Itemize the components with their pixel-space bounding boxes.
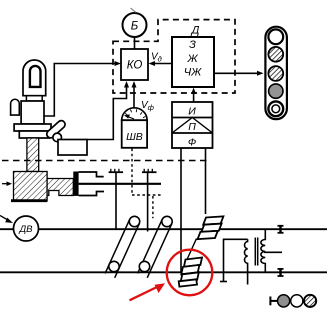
IPF stack box xyxy=(172,102,213,148)
link coil A to coil B xyxy=(187,239,197,260)
locomotive light head xyxy=(265,27,287,120)
lens hatched 1 xyxy=(268,47,283,62)
piston black bar xyxy=(73,172,78,196)
arrow I to D xyxy=(193,91,195,102)
output arrow to light xyxy=(214,72,260,74)
KO box xyxy=(121,49,148,80)
DV motor circle xyxy=(14,216,39,241)
tick above B xyxy=(131,8,137,12)
legend hatched lamp xyxy=(304,295,316,307)
RB box xyxy=(58,140,87,156)
transformer core xyxy=(254,238,256,266)
lens gray xyxy=(269,84,283,98)
svg-text:З: З xyxy=(189,39,196,51)
circle B (battery) xyxy=(123,13,147,37)
belt drive 1 xyxy=(105,216,140,277)
svg-text:Ж: Ж xyxy=(186,53,198,65)
svg-text:Ф: Ф xyxy=(188,137,196,149)
hatched stem xyxy=(27,138,39,172)
brush contact 1 xyxy=(109,169,124,229)
hatched main body xyxy=(14,172,48,202)
transformer left winding xyxy=(245,239,248,284)
Vd arrow D to KO xyxy=(151,63,172,65)
ShV box xyxy=(122,120,147,148)
side tab xyxy=(11,99,20,115)
brush contact 2 xyxy=(142,169,157,232)
D box (decoder) xyxy=(172,37,214,87)
legend gray lamp xyxy=(278,295,290,307)
svg-text:И: И xyxy=(188,106,196,118)
valve body block xyxy=(21,101,44,124)
filter leg left xyxy=(180,148,182,272)
air arrow into body xyxy=(2,183,9,185)
handle cylinder RB xyxy=(45,119,66,142)
dotted link ShV down xyxy=(131,149,133,194)
insulated joint top xyxy=(278,226,284,233)
wire device to KO xyxy=(44,64,119,117)
rail top xyxy=(0,228,327,230)
svg-text:ШВ: ШВ xyxy=(126,131,143,143)
svg-text:П: П xyxy=(188,121,196,133)
rail bottom xyxy=(0,271,327,273)
dotted link horizontal xyxy=(132,194,163,196)
flange 1 xyxy=(14,124,51,131)
wire RB to KO xyxy=(87,84,127,140)
bold base line xyxy=(11,199,47,202)
svg-text:КО: КО xyxy=(127,60,143,72)
receiver coil A xyxy=(198,216,224,239)
red highlight circle xyxy=(167,250,213,296)
dashed enclosure KO+D xyxy=(113,20,235,93)
arrow into DV xyxy=(0,216,9,221)
gauge needle xyxy=(126,116,134,119)
transformer right winding between rails xyxy=(261,229,265,272)
center tap xyxy=(264,251,282,253)
lens ring xyxy=(268,101,283,116)
svg-text:ДВ: ДВ xyxy=(18,224,33,235)
P diagonals xyxy=(172,118,192,134)
piston rod xyxy=(79,183,161,185)
whistle dome outer (EPK top) xyxy=(23,60,46,96)
gauge ticks xyxy=(125,109,145,118)
transformer left lead xyxy=(224,239,248,281)
lens white xyxy=(268,29,283,44)
whistle dome inner xyxy=(30,66,41,87)
cylinder outline xyxy=(79,172,104,196)
filter leg right xyxy=(205,148,207,214)
svg-text:Б: Б xyxy=(131,20,139,32)
stem B to KO xyxy=(134,37,136,49)
belt drive 2 xyxy=(138,216,173,277)
red arrow xyxy=(130,287,159,301)
insulated joint bottom xyxy=(278,269,284,276)
receiver coil B xyxy=(179,258,202,287)
hatched protrusion xyxy=(47,179,73,196)
svg-text:Д: Д xyxy=(190,25,200,37)
wire ShV to KO xyxy=(133,84,135,109)
flange 2 xyxy=(19,131,49,138)
legend white lamp xyxy=(291,295,303,307)
svg-text:ЧЖ: ЧЖ xyxy=(184,67,202,79)
valve neck band xyxy=(26,96,42,101)
dotted link down to belt xyxy=(152,196,154,218)
lens hatched 2 xyxy=(268,66,283,81)
long dashed line xyxy=(2,160,210,162)
legend stub xyxy=(269,297,271,306)
ShV gauge dome xyxy=(122,108,147,120)
